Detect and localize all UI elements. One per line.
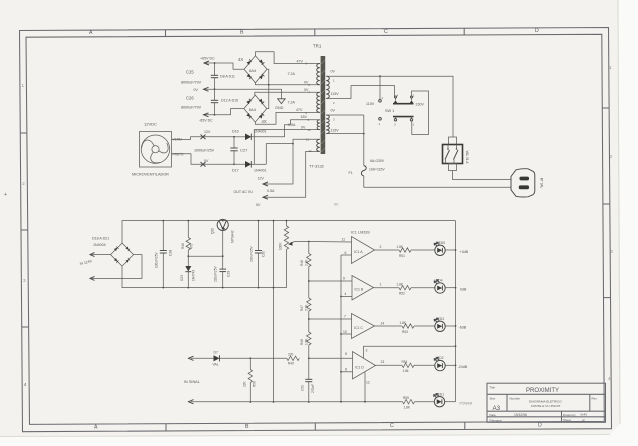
svg-text:+3dB: +3dB	[460, 250, 469, 254]
svg-text:OUT AC VU: OUT AC VU	[234, 190, 254, 194]
svg-text:100uF/25V: 100uF/25V	[155, 252, 159, 268]
svg-text:18V: 18V	[301, 115, 308, 119]
wire 115V pin2 to SW1	[326, 86, 394, 99]
svg-text:14: 14	[381, 322, 385, 326]
svg-text:115V: 115V	[331, 92, 340, 96]
svg-text:8000uF/70V: 8000uF/70V	[181, 105, 202, 109]
capacitor C27	[233, 137, 235, 148]
capacitor C30	[258, 221, 260, 251]
svg-text:0V: 0V	[256, 203, 261, 207]
wire bridge1 bottom 0V pin 8	[256, 83, 320, 85]
wire input AC bottom	[91, 255, 143, 279]
wire 0V pin 7	[255, 92, 320, 95]
svg-text:0dB: 0dB	[460, 288, 467, 292]
svg-text:4: 4	[345, 292, 347, 296]
transformer TR1 core	[309, 44, 325, 169]
svg-text:C: C	[384, 29, 388, 35]
bridge rectifier D12 A D15	[221, 95, 267, 124]
svg-text:1: 1	[609, 65, 612, 70]
svg-text:2: 2	[22, 181, 25, 186]
svg-text:220uF/25V: 220uF/25V	[214, 266, 218, 282]
wire mid 0V rail	[122, 266, 287, 288]
svg-text:220uF/25V: 220uF/25V	[250, 246, 254, 262]
svg-text:LED5: LED5	[437, 241, 445, 245]
svg-text:0V: 0V	[301, 125, 306, 129]
comparator bus vertical	[340, 255, 342, 402]
svg-text:C29: C29	[227, 271, 231, 277]
wire 230V loop	[412, 91, 429, 135]
svg-text:D7: D7	[214, 351, 218, 355]
svg-text:1N4001: 1N4001	[254, 129, 267, 133]
svg-text:3: 3	[366, 349, 368, 353]
svg-text:MPSA42: MPSA42	[231, 230, 235, 243]
zone tick top 1	[165, 30, 167, 37]
svg-text:A: A	[94, 425, 98, 431]
svg-text:115V: 115V	[331, 129, 340, 133]
svg-text:of: of	[582, 418, 585, 422]
fuse holder box VAL 01A	[443, 137, 470, 171]
ground	[278, 99, 286, 104]
LED4	[434, 279, 467, 293]
svg-text:19/12/96: 19/12/96	[514, 413, 527, 417]
op-amp IC1 C	[341, 314, 384, 339]
svg-text:LED3: LED3	[436, 317, 444, 321]
svg-text:230V: 230V	[416, 102, 425, 106]
wire 115V pin4 bottom	[326, 133, 364, 135]
svg-text:1.8K: 1.8K	[304, 338, 308, 345]
bridge rectifier D8 A D11	[220, 56, 267, 83]
svg-text:10: 10	[343, 330, 347, 334]
svg-text:22K: 22K	[243, 380, 247, 387]
svg-text:270nF: 270nF	[311, 384, 315, 393]
switch SW1 top bar	[385, 93, 424, 113]
svg-text:1.8K: 1.8K	[397, 283, 404, 287]
svg-text:12: 12	[309, 149, 313, 153]
resistor R54 1.8K	[402, 363, 414, 367]
svg-text:6: 6	[345, 251, 347, 255]
transformer winding left 2 (0V/47V)	[317, 92, 320, 112]
wire chain bottom to pin5	[309, 357, 353, 359]
wire bridge2 bottom to 47V pin 6	[255, 112, 319, 124]
LED2	[434, 356, 467, 371]
svg-text:GND: GND	[275, 106, 284, 110]
svg-text:1N4001: 1N4001	[254, 168, 267, 172]
svg-text:D: D	[535, 28, 539, 34]
svg-text:Date: Date	[490, 413, 497, 417]
resistor R52 1.8K	[399, 286, 411, 290]
svg-text:10: 10	[308, 128, 312, 132]
zone tick left 1	[20, 132, 27, 134]
diode D7 VAL	[214, 355, 220, 361]
wire out ac vu 12V	[263, 139, 320, 184]
row B: wire out IC1B	[374, 287, 400, 289]
svg-text:Sheet: Sheet	[563, 418, 571, 422]
row C: wire out IC1C	[375, 325, 403, 327]
svg-text:4: 4	[608, 376, 611, 381]
svg-text:Rev: Rev	[592, 396, 598, 400]
svg-text:POWER: POWER	[460, 402, 473, 406]
zone tick left 3	[22, 326, 29, 328]
wire Q20 emitter down	[222, 229, 224, 269]
svg-text:-24dB: -24dB	[458, 365, 468, 369]
svg-text:MICROVENTILADOR: MICROVENTILADOR	[132, 173, 169, 177]
svg-text:6A4: 6A4	[249, 107, 257, 112]
svg-text:C26: C26	[186, 96, 194, 101]
svg-text:1000uF/25V: 1000uF/25V	[194, 148, 215, 152]
diode D17 1N4001	[172, 154, 246, 165]
svg-text:F1: F1	[349, 171, 353, 175]
svg-text:FONTE E VU 350 RT: FONTE E VU 350 RT	[531, 404, 561, 408]
capacitor C25	[214, 63, 216, 75]
wire D17 cathode to pin 11 node	[266, 144, 293, 165]
wire +65V DC rail	[204, 63, 244, 69]
svg-text:1: 1	[22, 83, 25, 88]
svg-text:115V: 115V	[366, 102, 375, 106]
svg-text:1: 1	[380, 283, 382, 287]
svg-text:1.8k: 1.8k	[403, 369, 409, 373]
zone tick right 3	[604, 297, 611, 299]
svg-text:SW 1: SW 1	[385, 109, 394, 113]
svg-text:1N4743: 1N4743	[192, 270, 196, 281]
wire 18V pin to D16	[252, 120, 320, 137]
svg-text:Size: Size	[490, 396, 496, 400]
transformer winding left 1 (47V/0V)	[317, 64, 320, 85]
wire bottom signal rail	[191, 401, 403, 403]
LED5	[434, 241, 468, 256]
row D: wire out IC1D	[376, 364, 403, 366]
wire down to fuse F1	[363, 115, 365, 166]
resistor R48 1.8K	[307, 332, 311, 345]
zone tick top 3	[463, 28, 465, 35]
zener D23 1N4743	[185, 266, 191, 272]
svg-text:IC1 B: IC1 B	[355, 287, 364, 291]
svg-text:47V: 47V	[296, 108, 303, 112]
svg-text:IN SINAL: IN SINAL	[184, 380, 200, 384]
svg-text:2.3K: 2.3K	[304, 259, 308, 266]
svg-text:0V: 0V	[331, 70, 336, 74]
svg-text:2: 2	[610, 154, 613, 159]
svg-text:8: 8	[345, 368, 347, 372]
svg-text:-65V DC: -65V DC	[199, 119, 213, 123]
transformer winding right B (0V/115V)	[326, 115, 329, 134]
svg-text:11: 11	[342, 238, 346, 242]
diode D16 1N4001	[234, 136, 245, 138]
svg-text:11: 11	[306, 137, 309, 141]
svg-text:3: 3	[610, 249, 613, 254]
resistor R49 220	[287, 356, 300, 360]
svg-text:C27: C27	[240, 147, 248, 152]
wire bridge1 top to 47V pin 9	[256, 52, 320, 64]
svg-text:3: 3	[23, 278, 26, 283]
divider chain node wire to pin11	[309, 241, 352, 244]
svg-text:C25: C25	[186, 69, 194, 74]
zone tick bottom 1	[165, 424, 167, 431]
svg-text:220: 220	[288, 353, 294, 357]
op-amp IC1 B	[341, 276, 382, 301]
svg-text:Q20: Q20	[211, 228, 215, 234]
transformer winding right A (0V/115V)	[326, 76, 329, 98]
svg-text:0V: 0V	[194, 88, 199, 92]
svg-text:D12 A D15: D12 A D15	[221, 99, 238, 103]
switch SW1 bottom bar	[379, 117, 415, 127]
svg-text:R49: R49	[288, 361, 294, 365]
svg-text:1.8K: 1.8K	[397, 245, 404, 249]
svg-text:Number: Number	[510, 396, 521, 400]
svg-text:3.3K: 3.3K	[304, 304, 308, 311]
wire IC1D pin12 down	[364, 372, 366, 402]
svg-text:5: 5	[345, 352, 347, 356]
svg-text:D: D	[538, 422, 542, 428]
wire out ac vu 0V	[263, 151, 317, 197]
wire 12V fan row	[172, 137, 235, 140]
svg-text:0.5A: 0.5A	[288, 123, 296, 127]
wire fuse to plug	[364, 176, 511, 187]
wire primary 0V pin1 top rail	[326, 76, 453, 137]
svg-text:0V: 0V	[331, 109, 336, 113]
zone tick right 2	[603, 203, 610, 205]
capacitor C29	[219, 268, 226, 270]
svg-text:VAL 01 A: VAL 01 A	[465, 151, 469, 165]
op-amp IC1 A	[341, 231, 382, 264]
svg-text:B: B	[245, 424, 249, 430]
resistor R46b 2.3K chain	[308, 242, 310, 254]
wire input AC top	[91, 254, 111, 256]
capacitor C28	[162, 221, 164, 251]
svg-text:VERM: VERM	[173, 138, 183, 142]
svg-text:1N4004: 1N4004	[93, 243, 106, 247]
svg-text:PRETO: PRETO	[173, 153, 184, 157]
svg-text:DIAGRAMA ELETRICO: DIAGRAMA ELETRICO	[529, 400, 562, 404]
svg-text:0e45: 0e45	[581, 412, 588, 416]
svg-text:D23: D23	[180, 275, 184, 281]
wire IC1D feedback pin3	[364, 346, 456, 358]
svg-text:D18 A D21: D18 A D21	[92, 236, 109, 240]
svg-text:B: B	[240, 30, 244, 36]
svg-text:470: 470	[190, 243, 194, 249]
svg-text:C31: C31	[301, 385, 305, 391]
svg-text:12: 12	[366, 381, 370, 385]
svg-text:0.5A: 0.5A	[267, 189, 275, 193]
svg-text:1.8K: 1.8K	[404, 406, 411, 410]
bridge rectifier D18 A D21	[79, 236, 133, 266]
svg-text:6A4: 6A4	[249, 68, 257, 73]
svg-text:4X: 4X	[262, 119, 267, 124]
svg-text:4: 4	[24, 382, 27, 387]
svg-text:4X: 4X	[238, 57, 243, 62]
svg-text:PROXIMITY: PROXIMITY	[526, 388, 559, 394]
svg-text:Filename: Filename	[490, 418, 503, 422]
svg-text:D16: D16	[232, 129, 239, 133]
svg-text:12VDC: 12VDC	[144, 122, 157, 127]
svg-text:+: +	[4, 192, 7, 198]
svg-text:R50: R50	[253, 381, 257, 387]
wire IN SINAL top	[191, 357, 214, 359]
svg-text:9: 9	[343, 277, 345, 281]
svg-text:LED2: LED2	[436, 356, 444, 360]
wire top rail +12	[122, 221, 456, 244]
svg-text:10A=115V: 10A=115V	[369, 168, 385, 172]
svg-text:12V: 12V	[258, 177, 265, 181]
svg-text:IC1 LM339: IC1 LM339	[351, 231, 370, 235]
svg-text:C: C	[390, 423, 394, 429]
resistor R53 1.8K	[402, 324, 414, 328]
op-amp IC1 D	[341, 349, 384, 385]
LED3	[434, 317, 466, 331]
capacitor C26	[214, 89, 216, 100]
svg-text:12V: 12V	[204, 130, 211, 134]
frame inner border	[26, 34, 604, 424]
AC plug	[511, 169, 544, 197]
wire -65V DC rail	[204, 109, 244, 115]
svg-text:IC1 D: IC1 D	[355, 365, 364, 369]
svg-text:LED4: LED4	[435, 279, 443, 283]
resistor R46 470	[187, 221, 189, 238]
resistor R50 22K	[249, 357, 251, 359]
svg-text:R46: R46	[181, 243, 185, 249]
microventilador fan	[132, 122, 184, 177]
svg-text:Title: Title	[490, 386, 496, 390]
resistor R55 1.8K on bottom rail	[403, 400, 415, 404]
svg-text:47V: 47V	[297, 59, 304, 63]
svg-text:Drawn by: Drawn by	[563, 413, 576, 417]
svg-text:R54: R54	[402, 360, 408, 364]
svg-text:7.2A: 7.2A	[288, 100, 296, 104]
svg-text:D8 A D11: D8 A D11	[220, 74, 235, 78]
wire 0V pin 10 to D17 row	[254, 130, 319, 165]
svg-text:13: 13	[381, 360, 385, 364]
row A: wire out IC1A	[375, 249, 400, 251]
potentiometer 100K	[286, 221, 288, 226]
svg-text:A3: A3	[493, 405, 501, 412]
fuse F1	[361, 166, 366, 177]
wire bridge right corners vertical	[267, 69, 269, 108]
svg-text:1.8K: 1.8K	[400, 321, 407, 325]
svg-text:100K: 100K	[279, 242, 283, 250]
svg-text:7.2A: 7.2A	[288, 72, 296, 76]
zone tick top 2	[314, 29, 316, 36]
svg-text:R55: R55	[403, 396, 409, 400]
svg-text:BT 9AL: BT 9AL	[540, 178, 544, 189]
zone tick bottom 3	[464, 423, 466, 430]
svg-text:8000uF/70V: 8000uF/70V	[181, 81, 202, 85]
zone tick bottom 2	[314, 423, 316, 430]
pot wiper	[290, 242, 309, 244]
wire chain node to pin7	[309, 318, 352, 320]
svg-text:R51: R51	[399, 254, 405, 258]
svg-text:VAL: VAL	[213, 362, 219, 366]
title block	[487, 383, 606, 422]
resistor R51 1.8K	[399, 248, 411, 252]
svg-text:+65V DC: +65V DC	[200, 57, 215, 61]
capacitor C31 270nF	[308, 358, 310, 379]
svg-text:R53: R53	[402, 330, 408, 334]
wire base node	[188, 255, 222, 257]
svg-text:IC1 A: IC1 A	[354, 250, 363, 254]
svg-text:R52: R52	[399, 292, 405, 296]
wire chain node to pin9	[309, 280, 352, 282]
wire primary 0V pin3 to fuse	[326, 114, 364, 116]
svg-text:TT-3132: TT-3132	[309, 164, 325, 169]
wire selector 115V terminal	[379, 76, 381, 99]
svg-text:TR1: TR1	[313, 44, 322, 49]
svg-text:D17: D17	[232, 168, 239, 172]
resistor R47 3.3K	[307, 298, 311, 311]
transformer winding left 3 (18V/0V)	[317, 120, 320, 130]
wire vertical junction x273	[273, 221, 275, 402]
zone tick right 1	[602, 107, 609, 109]
svg-text:-6dB: -6dB	[459, 326, 467, 330]
LED1	[434, 392, 473, 407]
svg-text:2: 2	[380, 245, 382, 249]
wire 0V rail to GND	[204, 89, 282, 99]
transformer winding left 4 (11/12)	[317, 139, 320, 151]
svg-text:C28: C28	[169, 250, 173, 256]
svg-text:LED1: LED1	[436, 392, 444, 396]
svg-text:7: 7	[344, 315, 346, 319]
svg-text:0V: 0V	[334, 203, 339, 207]
wire right rail	[455, 221, 457, 402]
svg-text:IC1 C: IC1 C	[354, 326, 363, 330]
svg-text:6A=230V: 6A=230V	[370, 159, 385, 163]
transistor Q20 MPSA42	[211, 219, 235, 243]
wire fuse holder to plug	[453, 171, 512, 180]
zone tick left 2	[21, 229, 28, 231]
svg-text:C30: C30	[262, 251, 266, 257]
svg-text:A: A	[89, 30, 93, 36]
